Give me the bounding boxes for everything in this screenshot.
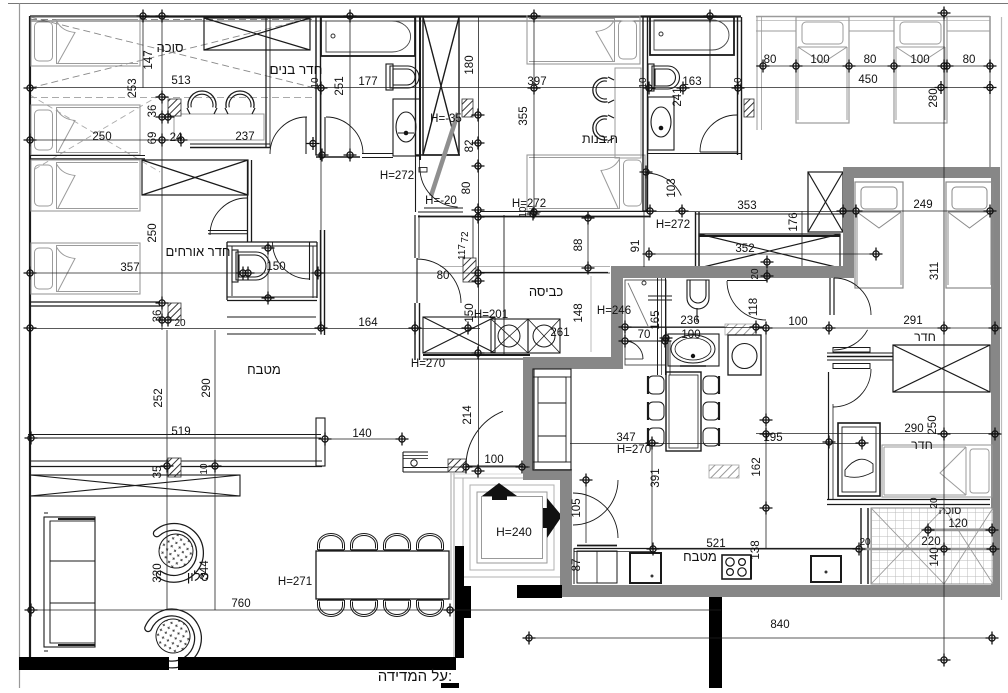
svg-text:H=240: H=240 [496, 525, 532, 539]
chair right 1 [703, 376, 719, 394]
unit2 bed 2 [946, 182, 993, 288]
svg-text:118: 118 [748, 298, 760, 316]
svg-text:253: 253 [127, 78, 139, 97]
svg-text:311: 311 [929, 262, 941, 280]
logo mark [441, 683, 459, 688]
gray wall bottom [560, 585, 1000, 597]
svg-text:91: 91 [630, 240, 642, 253]
dim v x710 [709, 16, 711, 88]
dim v x167 [166, 330, 168, 610]
arrow up [482, 483, 517, 500]
dchair bottom 2 [351, 600, 378, 617]
svg-text:513: 513 [171, 75, 190, 87]
door80 [416, 258, 418, 303]
svg-text:163: 163 [682, 76, 701, 88]
vanity unit2 [668, 334, 719, 366]
chair left 3 [648, 428, 664, 446]
toilet 1 [386, 64, 419, 90]
svg-text:353: 353 [737, 200, 756, 212]
svg-text:80: 80 [864, 54, 877, 66]
arrow right [543, 498, 562, 538]
svg-text:148: 148 [573, 303, 585, 322]
dim line y443 [570, 443, 866, 445]
dchair top 4 [417, 534, 444, 551]
gray wall vert1 [611, 278, 623, 369]
dim line y273 [30, 272, 610, 274]
svg-text:250: 250 [147, 223, 159, 242]
svg-text:חדר: חדר [914, 330, 936, 344]
wall bath1 left [315, 17, 317, 155]
dim v x802 [801, 211, 803, 266]
svg-text:140: 140 [352, 428, 371, 440]
svg-text:69: 69 [147, 132, 159, 145]
wall bath1 right [415, 17, 417, 155]
hatch bath2 [744, 99, 754, 117]
kitchen2 counter [574, 548, 860, 550]
kitchen X strip [30, 475, 240, 496]
svg-text:ח.בנות: ח.בנות [582, 132, 618, 146]
laundry X [423, 317, 495, 353]
unit2 bedroom wall left [828, 372, 830, 500]
svg-text:164: 164 [358, 317, 378, 329]
gray wall vert2 [523, 369, 535, 480]
unit2 bedroom bottom wall [827, 499, 990, 501]
svg-text:סלון: סלון [187, 569, 209, 584]
svg-text:72: 72 [460, 231, 471, 243]
door bedroom1 [305, 117, 307, 154]
island 140 [325, 438, 402, 440]
dim v x644 [643, 211, 645, 267]
wall top [30, 15, 741, 17]
dim line y254 [645, 253, 880, 255]
wall corridor left [415, 155, 417, 212]
svg-text:214: 214 [462, 405, 474, 425]
svg-text:760: 760 [231, 598, 250, 610]
dim toilet guest [267, 248, 269, 298]
chair right 3 [703, 428, 719, 446]
stair lobby [463, 478, 561, 577]
svg-text:70: 70 [638, 329, 651, 341]
armchair 1 [149, 524, 204, 583]
svg-text:20: 20 [929, 497, 940, 509]
sofa unit2 [533, 369, 571, 470]
dim v x766 [765, 328, 767, 549]
svg-text:H=272: H=272 [656, 219, 690, 231]
svg-text:117: 117 [457, 244, 468, 260]
door bath2 [700, 115, 737, 152]
closet X top [204, 18, 310, 50]
neighbor bed 2 [894, 17, 947, 123]
svg-text:195: 195 [763, 432, 782, 444]
svg-text:20: 20 [859, 537, 871, 548]
dchair top 2 [351, 534, 378, 551]
dim line y66 [756, 65, 991, 67]
dim v x588 [587, 211, 589, 273]
shower [625, 280, 666, 365]
dim line y467 [448, 466, 530, 468]
sink bath2 [648, 97, 674, 150]
entrance door arc [466, 411, 503, 466]
svg-text:35: 35 [152, 466, 164, 479]
kitchen2 door arc [573, 493, 618, 538]
hatch bath1 [462, 99, 473, 117]
svg-text:סוכה: סוכה [939, 505, 962, 517]
door unit2 inner [573, 480, 618, 525]
svg-text:320: 320 [152, 563, 164, 582]
chair 1 [188, 91, 216, 108]
svg-text:220: 220 [921, 536, 940, 548]
bath walls unit2 [657, 278, 659, 375]
svg-text:105: 105 [571, 498, 583, 517]
shelf H-20 [424, 207, 463, 209]
svg-text:251: 251 [334, 76, 346, 95]
wall bedroom2 right [642, 17, 644, 211]
svg-text:165: 165 [650, 310, 662, 329]
reception desk [403, 451, 428, 453]
closet X tall [423, 17, 459, 155]
laundry walls [503, 215, 505, 355]
chair left 1 [648, 376, 664, 394]
svg-text:H=271: H=271 [278, 576, 312, 588]
bed girls 2 [527, 155, 645, 211]
sink2 [811, 556, 841, 582]
svg-text:147: 147 [143, 50, 155, 69]
svg-text:357: 357 [120, 262, 139, 274]
dim line y341 [624, 340, 666, 342]
neighbor shelf [756, 30, 796, 32]
desk girls [615, 68, 641, 158]
neighbor bed 1 [796, 17, 849, 123]
bed 3 [31, 160, 140, 211]
dim markers [137, 10, 150, 23]
svg-text:347: 347 [616, 432, 635, 444]
svg-text:252: 252 [153, 388, 165, 407]
svg-text:236: 236 [680, 315, 699, 327]
svg-text:249: 249 [913, 199, 932, 211]
dchair top 1 [318, 534, 345, 551]
svg-text:120: 120 [948, 518, 967, 530]
svg-text:10: 10 [518, 206, 529, 218]
door bath unit2 [727, 280, 767, 282]
dim line y638 [529, 637, 995, 639]
svg-text:H=272: H=272 [380, 170, 414, 182]
svg-text:100: 100 [681, 329, 700, 341]
wall mid right [695, 212, 697, 266]
dim v x478 [478, 16, 480, 471]
svg-text:391: 391 [650, 468, 662, 487]
svg-text:250: 250 [927, 415, 939, 434]
closet X hall [699, 234, 840, 268]
svg-text:840: 840 [770, 619, 789, 631]
wall top right light [756, 16, 990, 18]
svg-text:10: 10 [638, 77, 649, 89]
svg-text:82: 82 [464, 140, 476, 153]
gray wall top [843, 167, 1000, 178]
sheet border [8, 3, 1008, 5]
svg-text:H=270: H=270 [617, 444, 651, 456]
dim line y434 [756, 433, 1000, 435]
unit2 bed 3 [882, 445, 992, 497]
chair left 2 [648, 402, 664, 420]
svg-text:80: 80 [461, 182, 473, 195]
svg-text:80: 80 [963, 54, 976, 66]
svg-text:291: 291 [903, 315, 922, 327]
closet X vert right [808, 172, 843, 232]
svg-text:87: 87 [571, 559, 583, 572]
svg-text:24: 24 [170, 132, 183, 144]
svg-text:88: 88 [573, 239, 585, 252]
washer 1 [491, 319, 528, 353]
svg-text:100: 100 [484, 454, 503, 466]
svg-text:חדר בנים: חדר בנים [269, 62, 322, 77]
dchair bottom 4 [417, 600, 444, 617]
toilet room walls [227, 241, 317, 243]
svg-text:177: 177 [358, 76, 377, 88]
dim line y87 [30, 87, 991, 89]
svg-text:10: 10 [310, 77, 321, 89]
dim v x944 [943, 13, 945, 660]
svg-text:על המדידה:: על המדידה: [378, 668, 452, 685]
svg-text:100: 100 [788, 316, 807, 328]
chair girls 1 [593, 77, 614, 103]
door corridor [645, 172, 647, 212]
hatch living [709, 465, 739, 478]
unit2 closet X [893, 345, 990, 392]
dim line y610 [31, 609, 721, 611]
svg-text:138: 138 [750, 540, 762, 559]
svg-text:250: 250 [92, 131, 111, 143]
svg-text:10: 10 [733, 77, 744, 89]
svg-text:H=-35: H=-35 [430, 113, 462, 125]
svg-text:355: 355 [518, 106, 530, 125]
door bath1 [324, 117, 326, 154]
svg-text:150: 150 [266, 261, 285, 273]
svg-text:397: 397 [527, 76, 546, 88]
balcony tiles [871, 508, 993, 584]
kitchen counter [30, 460, 322, 462]
svg-text:261: 261 [550, 327, 569, 339]
black column bottom [709, 597, 722, 688]
dim v x652 [651, 443, 653, 549]
svg-text:10: 10 [199, 463, 210, 475]
svg-text:כביסה: כביסה [529, 284, 564, 299]
gray ramp [431, 113, 458, 196]
bathtub 1 [321, 17, 415, 56]
svg-text:290: 290 [201, 378, 213, 397]
dim line y140 [30, 139, 185, 141]
svg-text:80: 80 [437, 270, 450, 282]
desk [174, 114, 264, 140]
hall wall light [450, 471, 452, 600]
unit2 bedroom door [827, 356, 893, 358]
svg-text:237: 237 [235, 131, 254, 143]
door shower [625, 341, 643, 359]
washer 2 [528, 319, 560, 353]
kitchen counter top [28, 434, 321, 436]
wall bath2 right [737, 17, 739, 155]
svg-text:80: 80 [764, 54, 777, 66]
black seg lobby [517, 585, 562, 598]
shelf right wall [648, 295, 672, 297]
bed 1 [31, 17, 140, 66]
gray wall right [991, 178, 1000, 585]
svg-text:180: 180 [464, 55, 476, 74]
wall below bath unit2 [665, 327, 667, 375]
svg-text:176: 176 [788, 212, 800, 231]
bed 4 [31, 243, 140, 294]
svg-text:162: 162 [751, 457, 763, 476]
svg-text:100: 100 [910, 54, 929, 66]
door toilet guest [309, 242, 311, 280]
gray wall horiz2 [523, 357, 623, 369]
dashed sukkah outline [30, 17, 315, 88]
svg-text:290: 290 [904, 423, 923, 435]
dim v x143 [142, 16, 144, 88]
hatch kitchen [168, 458, 181, 477]
dim v x534 [533, 16, 535, 212]
bed 2 [31, 105, 140, 155]
black pillar [455, 546, 464, 658]
toilet unit2 [687, 280, 709, 322]
svg-text:280: 280 [928, 88, 940, 107]
hatch bath unit2 [725, 324, 756, 335]
toilet 2 [648, 64, 680, 91]
sink bath1 [393, 99, 420, 156]
black wall bottom mid [178, 657, 456, 670]
svg-text:מטבח: מטבח [683, 549, 717, 564]
toilet guest [232, 250, 270, 282]
dchair bottom 3 [384, 600, 411, 617]
bed girls 1 [527, 16, 640, 64]
svg-text:36: 36 [152, 310, 164, 323]
unit2 bed 1 [855, 182, 903, 288]
wall guest right [320, 230, 322, 330]
svg-text:חדר: חדר [911, 438, 933, 452]
wall corridor [480, 211, 650, 213]
svg-text:352: 352 [735, 243, 754, 255]
svg-text:140: 140 [929, 547, 941, 566]
sofa big [44, 517, 95, 647]
svg-text:חדר אורחים: חדר אורחים [166, 244, 231, 259]
svg-text:103: 103 [666, 178, 678, 197]
washer unit2 [728, 335, 761, 375]
gray wall vert3 [560, 480, 572, 597]
dim line y211 [650, 211, 845, 213]
dim v x321 [320, 87, 322, 330]
dim v x350 [349, 16, 351, 155]
wall below bath1 [316, 156, 360, 158]
table unit2 [666, 372, 701, 451]
chair 2 [226, 91, 254, 108]
dim line y549 [652, 548, 860, 550]
hatch guest [168, 303, 181, 320]
svg-text:450: 450 [858, 74, 877, 86]
chair girls 2 [593, 115, 614, 141]
svg-text:H=246: H=246 [597, 305, 631, 317]
dim v x162 [161, 16, 163, 330]
svg-text:מטבח: מטבח [247, 362, 281, 377]
gray wall left upper [843, 178, 854, 277]
dim line y328 right [624, 327, 756, 329]
svg-text:סוכה: סוכה [157, 40, 184, 55]
chair right 2 [703, 402, 719, 420]
unit2 hall door [829, 278, 831, 315]
svg-text:20: 20 [750, 268, 761, 280]
dim v x215 [214, 330, 216, 610]
gray wall horiz3 [523, 469, 572, 480]
svg-text:100: 100 [810, 54, 829, 66]
svg-text:H=270: H=270 [411, 358, 445, 370]
hatch column A [168, 99, 181, 116]
svg-text:20: 20 [174, 318, 186, 329]
hatch entrance [448, 459, 466, 472]
svg-text:519: 519 [171, 426, 190, 438]
hatch door80 [463, 258, 476, 282]
wall left [29, 16, 31, 657]
dchair bottom 1 [318, 600, 345, 617]
dchair top 3 [384, 534, 411, 551]
dim line y328 left [30, 328, 480, 330]
guest shelf [227, 316, 316, 318]
svg-text:H=-20: H=-20 [425, 195, 457, 207]
armchair 2 [146, 607, 204, 669]
stove [722, 555, 751, 579]
gray wall horiz1 [611, 266, 854, 278]
bathtub 2 [650, 17, 734, 55]
svg-text:H=201: H=201 [474, 309, 508, 321]
svg-text:36: 36 [147, 105, 159, 118]
black wall bottom left [19, 657, 169, 670]
crib [838, 423, 880, 496]
dining table [316, 551, 449, 599]
svg-text:241: 241 [672, 87, 684, 106]
closet X strip left [142, 160, 248, 195]
